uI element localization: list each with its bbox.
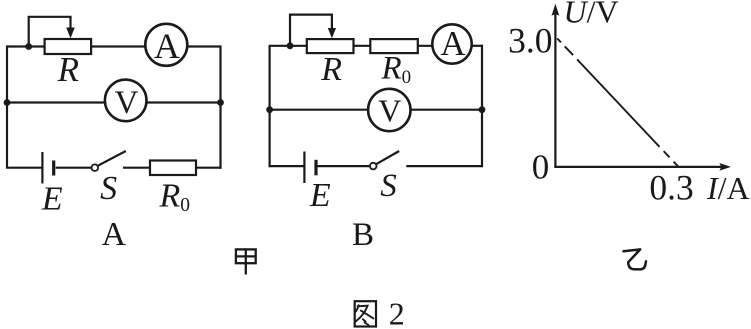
battery E (circuit B): short thick plate	[314, 160, 317, 176]
wire: B bottom left segment	[269, 165, 305, 167]
rheostat R (circuit B): wiper wire loop	[290, 15, 332, 46]
wire: B right vertical	[481, 45, 483, 167]
svg-text:3.0: 3.0	[508, 20, 552, 60]
rheostat R (circuit B): wiper arrowhead	[328, 28, 336, 38]
battery E (circuit A): short thick plate	[52, 161, 55, 176]
svg-text:E: E	[41, 180, 63, 217]
rheostat R (circuit B): body box	[307, 39, 354, 53]
svg-text:E: E	[309, 177, 331, 214]
axis: X (I/A)	[554, 166, 724, 168]
wire: A battery to switch	[56, 167, 92, 169]
voltmeter (circuit A): circle	[105, 80, 147, 122]
wire: B switch to right corner	[406, 165, 483, 167]
plot line: solid middle part	[581, 64, 654, 142]
axis: X arrowhead	[719, 163, 731, 171]
caption 甲 (jiǎ, under circuit A group) : drawn glyph	[236, 248, 256, 274]
wire: B left vertical	[269, 46, 271, 167]
svg-text:2: 2	[389, 296, 405, 329]
resistor R0 (circuit A) box	[150, 161, 196, 176]
svg-text:R0: R0	[159, 178, 191, 217]
wire: B battery to switch	[318, 165, 370, 167]
svg-text:R: R	[320, 51, 342, 88]
axis: Y arrowhead	[552, 4, 560, 16]
wire: B top horizontal	[269, 45, 435, 47]
svg-text:A: A	[154, 26, 180, 66]
wire: A right vertical	[219, 46, 221, 169]
ammeter (circuit A): circle	[145, 24, 187, 66]
wire: A top horizontal	[6, 45, 222, 47]
node: B rheostat junction dot	[287, 42, 294, 49]
svg-text:S: S	[380, 168, 397, 204]
rheostat R (circuit A): wiper wire loop	[29, 17, 71, 47]
node: B left mid junction dot	[266, 106, 273, 113]
plot line: dashed upper part	[557, 38, 581, 63]
svg-text:A: A	[440, 24, 466, 63]
plot line: dashed lower part	[654, 141, 678, 166]
rheostat R (circuit A): body box	[45, 39, 92, 54]
svg-text:U/V: U/V	[564, 0, 619, 30]
wire: A R0 to bottom right corner	[196, 167, 222, 169]
switch S (circuit B): lever	[376, 151, 399, 164]
battery E (circuit B): long plate	[303, 152, 305, 184]
node: A rheostat junction dot	[25, 43, 32, 50]
ammeter (circuit B): circle	[432, 24, 471, 63]
caption 图 (tú) of 图2 : drawn glyph	[355, 301, 376, 326]
voltmeter (circuit B): circle	[368, 89, 410, 131]
switch S (circuit A): lever	[98, 151, 126, 166]
resistor R0 (circuit B) box	[370, 39, 418, 53]
wire: A middle horizontal (voltmeter branch)	[6, 101, 222, 103]
svg-text:V: V	[378, 93, 401, 129]
node: A right mid junction dot	[217, 99, 224, 106]
svg-text:I/A: I/A	[706, 170, 750, 206]
switch S (circuit B): pivot circle	[370, 163, 377, 170]
svg-text:R0: R0	[381, 51, 412, 89]
rheostat R (circuit A): wiper arrowhead	[66, 28, 75, 39]
switch S (circuit A): pivot circle	[92, 164, 99, 171]
node: B right mid junction dot	[479, 106, 486, 113]
node: A left mid junction dot	[4, 99, 11, 106]
wire: A switch to R0	[123, 167, 150, 169]
battery E (circuit A): long plate	[41, 152, 43, 184]
svg-text:S: S	[100, 170, 117, 207]
svg-text:0: 0	[532, 148, 550, 187]
svg-text:R: R	[57, 50, 79, 89]
wire: B ammeter to right corner	[470, 45, 483, 47]
svg-text:B: B	[352, 217, 374, 253]
svg-text:V: V	[115, 85, 139, 121]
svg-text:A: A	[102, 216, 127, 253]
wire: B middle horizontal (voltmeter branch)	[269, 109, 483, 111]
wire: A left vertical	[6, 47, 8, 168]
caption 乙 (yǐ, under graph) : drawn glyph	[624, 249, 647, 269]
wire: A bottom left segment	[6, 167, 42, 169]
svg-text:0.3: 0.3	[649, 167, 693, 207]
axis: Y (U/V)	[554, 10, 556, 168]
